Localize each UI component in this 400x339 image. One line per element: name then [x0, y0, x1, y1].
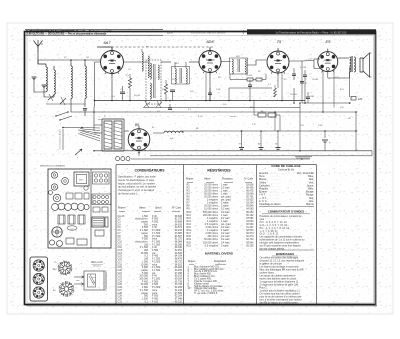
svg-text:Le Transformateur de Perruchot: Le Transformateur de Perruchot-Radio — P…: [276, 31, 347, 34]
svg-text:osc: osc: [146, 46, 149, 48]
svg-text:E5: E5: [326, 39, 332, 44]
electrolytic C32: [259, 131, 264, 149]
svg-text:C31: C31: [118, 300, 123, 303]
junction dots: [93, 100, 357, 154]
wafer switch rear: [59, 281, 75, 297]
svg-text:CONDENSATEURS: CONDENSATEURS: [135, 169, 166, 173]
column rule v2: [183, 165, 185, 305]
svg-text:E33: E33: [358, 98, 363, 101]
svg-text:. . . . . . . . . .: . . . . . . . . . .: [270, 179, 281, 181]
svg-text:. . . . . . . . . .: . . . . . . . . . .: [270, 192, 281, 194]
ground: [42, 85, 47, 88]
coil L4: [85, 63, 86, 99]
wire: [324, 131, 326, 138]
coil L3: [71, 63, 72, 99]
wire: [241, 131, 243, 147]
wire grid feed: [94, 62, 96, 107]
capacitor C10: [303, 70, 307, 103]
coil L2: [54, 66, 55, 97]
svg-text:F 100: F 100: [152, 300, 159, 303]
capacitor C14: [300, 82, 308, 86]
IF transformer T2in: [172, 62, 190, 84]
power transformer: [102, 119, 124, 151]
svg-text:. . . . . . . . . .: . . . . . . . . . .: [270, 195, 281, 197]
code de cablage header: [271, 164, 300, 171]
socket C: [33, 287, 44, 298]
svg-text:CV: CV: [70, 228, 74, 230]
svg-text:1 W: 1 W: [252, 124, 256, 126]
wire mains: [94, 124, 102, 126]
gang link dashed: [103, 46, 213, 48]
wire B+ rail: [181, 130, 356, 132]
svg-text:0,5 mégohm: 0,5 mégohm: [205, 244, 218, 247]
bobinages header: [272, 252, 298, 256]
oscillator coil L6: [148, 56, 149, 78]
electrolytic C33: [276, 131, 281, 149]
svg-text:CODE DE CABLAGE: CODE DE CABLAGE: [271, 164, 300, 168]
svg-text:974: 974: [239, 144, 242, 146]
wire rail 2: [143, 107, 300, 109]
header brace decor: [242, 30, 245, 34]
electrolytic C31: [239, 148, 244, 150]
svg-text:0,5 MF: 0,5 MF: [300, 67, 307, 69]
tube V4 42: [318, 49, 338, 75]
oscillator coil L5: [142, 49, 143, 71]
socket panel: [30, 257, 48, 301]
wire: [265, 74, 267, 80]
wire plate T1: [124, 61, 149, 63]
svg-text:Couleurs de fils: Couleurs de fils: [278, 168, 295, 171]
svg-text:Repère: Repère: [118, 206, 126, 209]
svg-text:Spécif.: Spécif.: [155, 207, 162, 209]
wire: [279, 115, 281, 131]
svg-text:N° Code: N° Code: [244, 179, 253, 181]
svg-text:Repère: Repère: [188, 260, 196, 263]
bloc labels: [92, 277, 95, 284]
padding C3: [83, 109, 87, 117]
svg-text:947: 947: [275, 144, 278, 146]
CV oval: [67, 226, 77, 231]
capacitor E33: [351, 97, 363, 102]
wire: [34, 80, 46, 92]
svg-text:60.310: 60.310: [175, 300, 183, 303]
svg-text:Successeur de CHARLES, Amateur: Successeur de CHARLES, Amateur: [191, 31, 226, 34]
bloc detail box: [84, 271, 107, 290]
wire: [333, 69, 335, 108]
core IF1: [154, 64, 156, 98]
svg-text:. . . . . . . . . .: . . . . . . . . . .: [270, 176, 281, 178]
wire: [84, 60, 86, 63]
svg-text:Marron: Marron: [306, 203, 315, 206]
svg-text:. . . . . . . . . .: . . . . . . . . . .: [270, 182, 281, 184]
dashed shield IF1: [146, 60, 161, 104]
svg-text:d’essai pour F et M, et sa val: d’essai pour F et M, et sa valeur: [118, 188, 154, 192]
commutateur text: [260, 215, 305, 250]
wire: [293, 88, 295, 103]
socket B: [33, 273, 44, 284]
svg-text:chauff.: chauff.: [230, 116, 236, 118]
svg-text:PO: PO: [64, 57, 67, 59]
node: [94, 100, 96, 102]
svg-text:1 MF: 1 MF: [216, 89, 221, 91]
wire rail bottom1: [94, 150, 372, 152]
bloc arrows: [74, 276, 84, 285]
svg-text:250.000: 250.000: [290, 94, 298, 96]
gang condenser: [52, 203, 90, 210]
svg-text:vers: vers: [76, 279, 80, 282]
wire: [221, 61, 230, 64]
wire: [328, 67, 350, 78]
wire: [209, 47, 211, 51]
antenna: [34, 40, 44, 53]
svg-text:BOBINAGES: BOBINAGES: [276, 252, 294, 256]
wire: [355, 112, 357, 151]
wire: [95, 61, 101, 63]
svg-text:10.000: 10.000: [312, 79, 319, 81]
socket A: [33, 260, 44, 271]
terminal grid: [92, 194, 111, 205]
resistor R2: [164, 80, 167, 101]
condensateurs table rows: [118, 215, 183, 303]
loudspeaker: [360, 53, 372, 77]
capacitor C9: [292, 68, 296, 80]
commutateur header: [262, 210, 310, 214]
wire: [209, 73, 211, 101]
svg-text:MATÉRIEL DIVERS: MATÉRIEL DIVERS: [205, 251, 233, 256]
wire coil bottoms: [46, 103, 85, 105]
switch S1: [55, 111, 72, 120]
speaker circle: [52, 227, 62, 237]
wire: [124, 130, 129, 132]
IF transformer 2: [230, 58, 248, 74]
wire: [274, 112, 276, 131]
column rule v3: [256, 165, 258, 305]
wire: [289, 60, 314, 63]
wire grid cap T1: [97, 47, 112, 50]
wire: [84, 99, 86, 107]
filter choke: [153, 131, 183, 140]
column rule v1: [115, 165, 117, 305]
svg-text:Valeur: Valeur: [204, 178, 211, 181]
coil IF1b: [150, 83, 151, 99]
small circles bottom: [49, 240, 62, 247]
coil L7: [158, 65, 159, 79]
svg-text:osc: osc: [92, 277, 95, 279]
svg-text:5.000: 5.000: [172, 79, 178, 81]
rule: [259, 206, 314, 208]
small rects bottom: [66, 230, 104, 245]
svg-text:vers les lames du bloc: vers les lames du bloc: [60, 129, 62, 149]
coil can row: [66, 193, 89, 199]
grid box V4: [314, 59, 320, 69]
svg-text:Positions du commutateur, cont: Positions du commutateur, contacts fer-: [260, 215, 303, 218]
tube V3 75: [267, 48, 289, 76]
tube top circle 4: [53, 194, 61, 202]
svg-text:6,3 V: 6,3 V: [198, 116, 203, 118]
condensateurs table header: [118, 206, 182, 211]
wire: [349, 72, 351, 97]
svg-text:A: A: [41, 42, 43, 46]
wire AVC bus: [229, 87, 272, 89]
svg-text:E: E: [301, 157, 303, 161]
wire rail 3: [94, 111, 215, 113]
svg-text:Spécification : F papier, aux: Spécification : F papier, aux isole-: [118, 175, 156, 179]
small circle x: [49, 186, 89, 195]
svg-text:ments: M, électrolytique, C cé: ments: M, électrolytique, C céra-: [118, 178, 155, 182]
svg-text:Tr. de sortie 7.000/2,5.: Tr. de sortie 7.000/2,5.: [194, 292, 218, 295]
wire: [44, 88, 54, 97]
svg-text:Géo: Géo: [167, 31, 173, 35]
wire: [247, 60, 267, 65]
border frame: [25, 32, 378, 307]
svg-text:GO: GO: [86, 57, 90, 59]
svg-text:de service pour L.: de service pour L.: [118, 192, 139, 196]
node dots: [70, 59, 86, 61]
wire: [277, 73, 279, 88]
svg-text:Désignation: Désignation: [214, 260, 227, 263]
svg-text:6D6: 6D6: [206, 39, 214, 44]
resistor R4: [274, 85, 277, 97]
coil L1: [46, 64, 47, 92]
value labels sprinkled: [47, 46, 351, 129]
column rule right end: [316, 165, 318, 305]
trafo sym row: [58, 215, 85, 224]
wire: [230, 74, 242, 80]
svg-text:50.000: 50.000: [134, 95, 141, 97]
capacitor C6: [170, 90, 175, 101]
svg-text:. . . . . . . . . .: . . . . . . . . . .: [270, 185, 281, 187]
resistor box pair: [254, 110, 280, 117]
capacitor C20: [306, 92, 315, 103]
svg-text:. . . . . . . . . .: . . . . . . . . . .: [270, 204, 281, 206]
IF can square: [74, 172, 89, 186]
svg-text:Repère: Repère: [186, 178, 194, 181]
bobinages text: [260, 257, 305, 305]
wafer switch front: [58, 261, 73, 276]
svg-text:2 MF: 2 MF: [318, 125, 323, 127]
capacitor C7: [248, 80, 252, 101]
wire: [111, 74, 113, 101]
wire: [93, 107, 95, 131]
wire top bus left: [38, 60, 100, 64]
svg-text:. . . . . . . . . .: . . . . . . . . . .: [270, 198, 281, 200]
trafo block right: [92, 217, 108, 227]
wire: [301, 61, 303, 103]
wire: [94, 132, 102, 134]
header title strip left: [25, 29, 163, 36]
trimmer CA4: [156, 101, 162, 108]
bloc detail title: [91, 261, 103, 268]
switch label bracket: [60, 129, 64, 150]
tube V1 6A7: [101, 48, 124, 77]
small rects mid: [93, 207, 108, 212]
terminal grid top: [93, 172, 110, 184]
wire heater rail: [215, 111, 356, 113]
dial lamps: [116, 157, 130, 161]
band switch fan: [62, 127, 100, 141]
header title strip right: [247, 29, 376, 34]
wire: [189, 61, 199, 63]
resistor R3: [242, 78, 266, 81]
heater drop V2: [205, 72, 207, 101]
resistances table rows: [187, 183, 255, 247]
svg-text:. . . . . . . . . .: . . . . . . . . . .: [270, 189, 281, 191]
wire: [302, 102, 351, 104]
ground: [32, 77, 37, 80]
svg-text:2 watts: 2 watts: [221, 244, 229, 247]
wire rail bottom2: [295, 156, 312, 158]
tube V5 80: [128, 126, 150, 153]
coil IF1a: [150, 63, 151, 79]
wire: [253, 101, 255, 116]
wire: [371, 151, 373, 156]
trimmer CA2: [60, 97, 66, 105]
svg-text:Bloc et CV: Bloc et CV: [91, 261, 103, 264]
wire rail bottom3: [150, 155, 372, 157]
capacitor C13: [168, 104, 172, 109]
svg-text:COMMUTATEUR D’ONDES: COMMUTATEUR D’ONDES: [268, 210, 305, 214]
svg-text:25.000: 25.000: [246, 75, 253, 77]
header title strip middle: [167, 31, 226, 35]
svg-text:Valeur: Valeur: [139, 206, 146, 209]
wire: [138, 150, 140, 156]
tube top circle 1: [51, 172, 57, 178]
svg-text:qui suit indique, au volt, la: qui suit indique, au volt, la tension: [118, 185, 157, 189]
column rule top: [116, 164, 317, 166]
svg-text:6A7: 6A7: [103, 40, 111, 45]
svg-text:RÉSISTANCES: RÉSISTANCES: [207, 168, 231, 173]
svg-text:N° Code: N° Code: [172, 207, 181, 209]
wire: [296, 157, 310, 159]
svg-text:75: 75: [277, 39, 282, 44]
wire plate V4: [338, 57, 349, 59]
output transformer: [350, 56, 356, 72]
wire: [161, 61, 171, 63]
capacitor C12: [208, 88, 212, 101]
heater drop V4: [322, 70, 324, 112]
tube top circle 3: [51, 184, 57, 190]
wire rail bottom4: [131, 158, 310, 160]
svg-text:Puissance: Puissance: [222, 179, 233, 181]
svg-text:mique, mica induit M. Le nombr: mique, mica induit M. Le nombre: [118, 181, 156, 185]
svg-text:65.259: 65.259: [246, 244, 254, 247]
tube top circle 2: [62, 178, 69, 185]
trimmer CA3: [144, 101, 150, 108]
wire: [228, 88, 230, 101]
node labels: [196, 128, 278, 146]
resistor R1: [128, 74, 131, 101]
trimmer CA1: [48, 94, 54, 101]
heater drop V3: [281, 73, 283, 101]
wire antenna to coils: [38, 53, 46, 65]
capacitor C5: [120, 86, 125, 101]
chassis layout box: [48, 169, 111, 248]
svg-text:acc: acc: [92, 282, 95, 284]
svg-text:DESSOUS DU CHASSIS: DESSOUS DU CHASSIS: [40, 165, 65, 168]
code list: [259, 172, 315, 206]
resistances table header: [186, 178, 254, 183]
materiel table header: [188, 260, 227, 264]
electrolytic C30: [322, 140, 331, 151]
condensateurs intro: [118, 175, 157, 196]
materiel table rows: [188, 265, 225, 295]
rule: [259, 249, 314, 251]
svg-text:R21: R21: [187, 244, 192, 247]
svg-text:des fils de liaison d’un même: des fils de liaison d’un même genre.: [260, 302, 299, 305]
svg-text:dessous: dessous: [93, 266, 101, 268]
wire: [299, 103, 301, 151]
wire: [70, 60, 72, 63]
wire rail 1: [94, 100, 305, 102]
switch arrow: [75, 149, 82, 159]
svg-text:. . . . . . . . . .: . . . . . . . . . .: [270, 173, 281, 175]
tube V2 6D6: [199, 48, 221, 76]
wire: [71, 99, 94, 112]
